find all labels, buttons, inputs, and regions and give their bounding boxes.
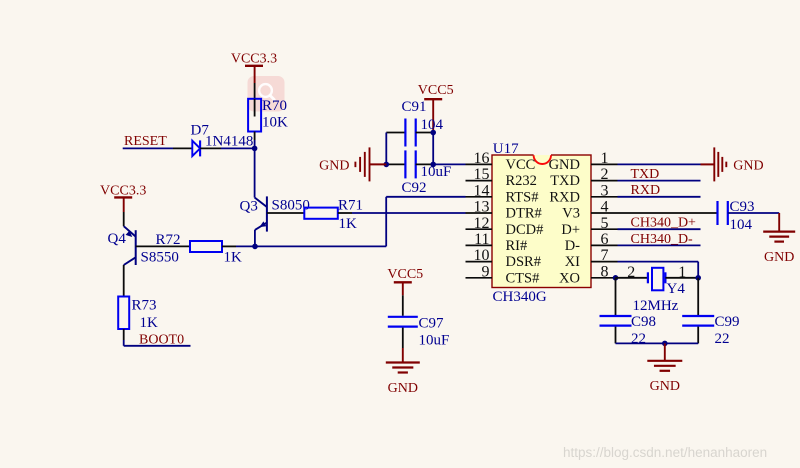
svg-text:1K: 1K: [339, 216, 358, 232]
svg-text:RXD: RXD: [549, 189, 580, 205]
svg-text:C92: C92: [402, 180, 427, 196]
svg-text:R73: R73: [132, 297, 157, 313]
svg-text:C93: C93: [730, 199, 755, 215]
svg-text:VCC5: VCC5: [387, 267, 423, 282]
svg-text:22: 22: [631, 331, 646, 347]
svg-text:Q4: Q4: [108, 231, 127, 247]
svg-text:7: 7: [601, 247, 609, 264]
svg-text:R71: R71: [338, 198, 363, 214]
svg-text:TXD: TXD: [550, 173, 580, 189]
svg-text:10: 10: [474, 247, 490, 264]
svg-text:C98: C98: [631, 314, 656, 330]
svg-text:DCD#: DCD#: [506, 222, 544, 238]
svg-text:RTS#: RTS#: [506, 189, 539, 205]
svg-text:13: 13: [474, 199, 490, 216]
svg-text:3: 3: [601, 182, 609, 199]
svg-text:Q3: Q3: [240, 198, 258, 214]
svg-text:GND: GND: [764, 250, 794, 265]
svg-text:VCC3.3: VCC3.3: [100, 183, 146, 198]
svg-text:5: 5: [601, 215, 609, 232]
svg-text:1K: 1K: [140, 315, 159, 331]
svg-text:RI#: RI#: [506, 238, 528, 254]
svg-text:CH340_D+: CH340_D+: [631, 216, 697, 231]
svg-text:2: 2: [601, 166, 609, 183]
svg-text:GND: GND: [733, 158, 763, 173]
svg-text:1N4148: 1N4148: [205, 134, 253, 150]
svg-text:8: 8: [601, 263, 609, 280]
svg-text:VCC5: VCC5: [418, 83, 454, 98]
svg-text:GND: GND: [650, 379, 680, 394]
svg-text:22: 22: [715, 331, 730, 347]
svg-text:DSR#: DSR#: [506, 254, 541, 270]
svg-text:10uF: 10uF: [421, 164, 452, 180]
svg-text:15: 15: [474, 166, 490, 183]
svg-text:CTS#: CTS#: [506, 270, 540, 286]
svg-text:Y4: Y4: [667, 281, 686, 297]
svg-text:GND: GND: [549, 157, 580, 173]
svg-text:C97: C97: [419, 315, 445, 331]
svg-text:RXD: RXD: [631, 183, 661, 198]
svg-text:VCC: VCC: [506, 157, 536, 173]
svg-text:D-: D-: [565, 238, 580, 254]
svg-text:S8550: S8550: [141, 250, 179, 266]
svg-text:TXD: TXD: [631, 167, 660, 182]
svg-text:XO: XO: [559, 270, 580, 286]
svg-text:https://blog.csdn.net/henanhao: https://blog.csdn.net/henanhaoren: [563, 445, 767, 460]
svg-text:CH340G: CH340G: [493, 289, 547, 305]
svg-text:12: 12: [474, 215, 490, 232]
svg-text:1K: 1K: [224, 250, 243, 266]
svg-text:11: 11: [474, 231, 489, 248]
svg-text:6: 6: [601, 231, 609, 248]
svg-text:12MHz: 12MHz: [633, 298, 679, 314]
svg-text:104: 104: [730, 217, 753, 233]
svg-text:BOOT0: BOOT0: [139, 332, 184, 347]
svg-text:RESET: RESET: [124, 134, 167, 149]
svg-text:R232: R232: [506, 173, 537, 189]
svg-text:XI: XI: [565, 254, 580, 270]
svg-text:10uF: 10uF: [419, 333, 450, 349]
svg-text:10K: 10K: [262, 115, 288, 131]
svg-text:GND: GND: [319, 158, 349, 173]
svg-text:1: 1: [601, 150, 609, 167]
svg-text:1: 1: [678, 264, 686, 281]
svg-text:V3: V3: [562, 206, 580, 222]
svg-text:VCC3.3: VCC3.3: [231, 52, 277, 67]
svg-text:14: 14: [474, 182, 490, 199]
svg-text:16: 16: [474, 150, 490, 167]
svg-text:2: 2: [627, 264, 635, 281]
svg-text:R70: R70: [262, 98, 287, 114]
svg-text:R72: R72: [156, 232, 181, 248]
svg-text:U17: U17: [493, 141, 519, 157]
svg-text:C99: C99: [715, 314, 740, 330]
svg-text:4: 4: [601, 199, 609, 216]
svg-text:DTR#: DTR#: [506, 206, 542, 222]
svg-text:C91: C91: [402, 99, 427, 115]
svg-text:D+: D+: [561, 222, 580, 238]
svg-text:GND: GND: [388, 381, 418, 396]
svg-text:9: 9: [482, 263, 490, 280]
svg-text:CH340_D-: CH340_D-: [631, 232, 694, 247]
